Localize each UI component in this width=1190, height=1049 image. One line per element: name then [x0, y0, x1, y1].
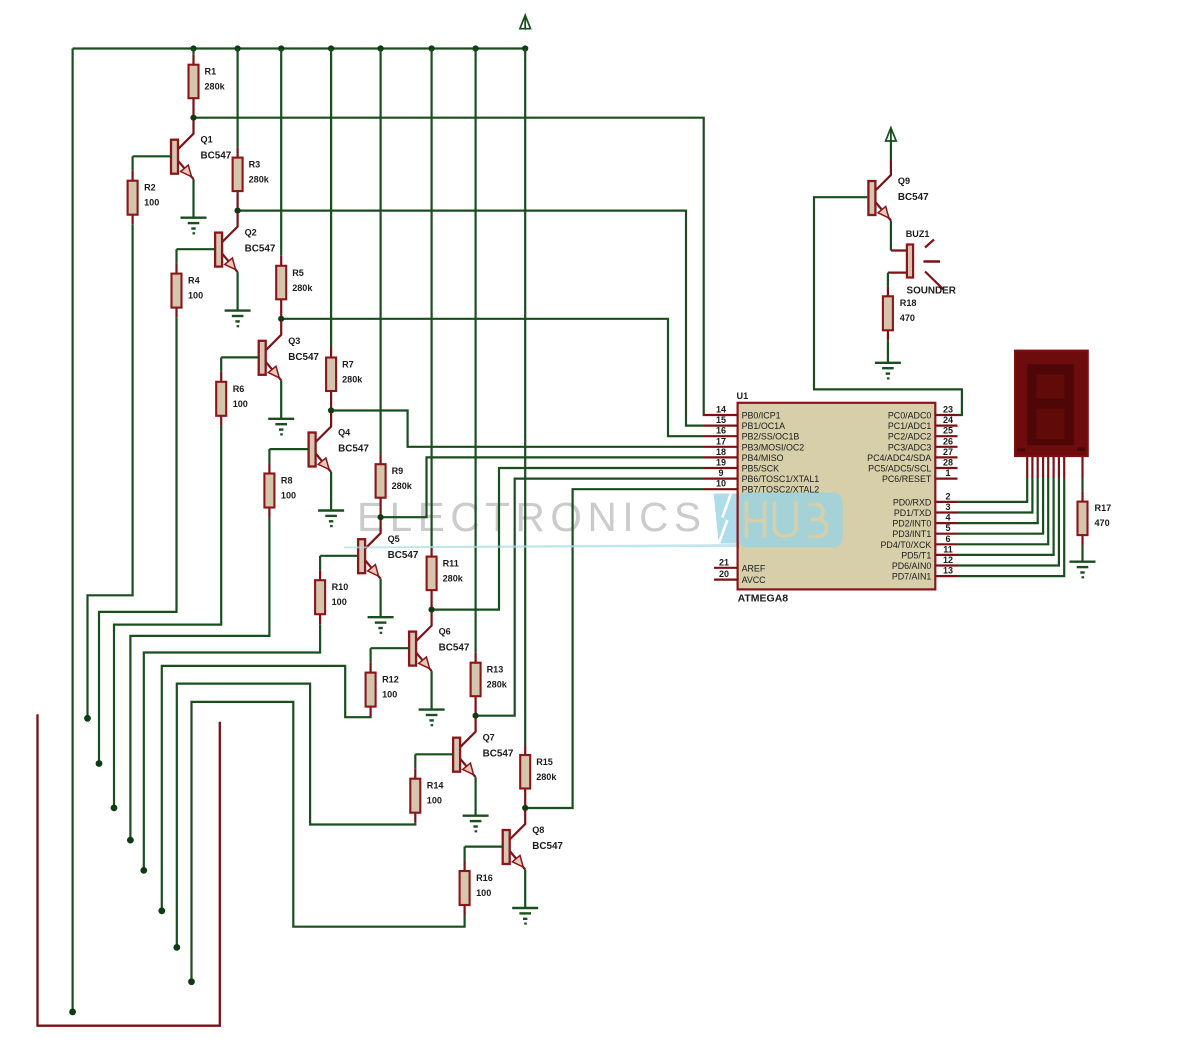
resistor R14 100	[410, 769, 444, 823]
resistor R3 280k	[233, 148, 270, 211]
wire bus drop stage 1	[192, 49, 194, 55]
wire output stage 3 to MCU	[281, 319, 704, 436]
ground under R17	[1070, 562, 1096, 578]
svg-text:R12: R12	[382, 675, 399, 685]
svg-text:R2: R2	[144, 183, 156, 193]
node probe 4 tip	[127, 837, 134, 844]
pin 14 PB0/ICP1	[704, 405, 781, 421]
svg-text:3: 3	[945, 502, 950, 512]
wire emitter Q7 to ground	[475, 777, 477, 816]
svg-text:100: 100	[281, 491, 296, 501]
resistor R4 100	[172, 264, 204, 318]
wire base Q6	[371, 648, 410, 662]
pin 24 PC1/ADC1	[888, 415, 958, 431]
svg-text:AREF: AREF	[742, 563, 766, 573]
svg-text:BUZ1: BUZ1	[906, 229, 930, 239]
resistor R1 280k	[189, 55, 226, 118]
svg-text:Q3: Q3	[288, 336, 300, 346]
transistor Q7 BC547	[453, 718, 514, 778]
svg-text:PC3/ADC3: PC3/ADC3	[888, 442, 931, 452]
svg-text:BC547: BC547	[483, 749, 514, 760]
svg-text:280k: 280k	[292, 283, 313, 293]
svg-text:Q8: Q8	[532, 825, 544, 835]
wire bus drop stage 4	[330, 49, 332, 348]
svg-text:BC547: BC547	[388, 550, 419, 561]
wire probe net stage 2	[99, 318, 177, 764]
svg-text:20: 20	[719, 569, 729, 579]
7-segment display	[1015, 351, 1088, 457]
wire bus drop stage 2	[237, 49, 239, 148]
node rail junction 1	[190, 45, 196, 51]
wire bus drop stage 5	[380, 49, 382, 455]
wire segment pin x1027 to MCU row 501.9	[958, 456, 1028, 502]
pin 25 PC2/ADC2	[888, 426, 958, 442]
resistor R15 280k	[520, 745, 557, 808]
svg-text:PB1/OC1A: PB1/OC1A	[742, 421, 785, 431]
node collector junction Q8	[522, 805, 528, 811]
pin 28 PC5/ADC5/SCL	[868, 458, 957, 474]
wire base Q5	[320, 556, 358, 570]
transistor Q4 BC547	[309, 413, 370, 473]
wire bus drop stage 7	[475, 49, 477, 653]
pin 16 PB2/SS/OC1B	[704, 426, 799, 442]
svg-text:6: 6	[945, 534, 950, 544]
svg-text:Q1: Q1	[201, 135, 213, 145]
pin 19 PB5/SCK	[704, 458, 779, 474]
wire segment pin x1032 to MCU row 512.5	[958, 456, 1033, 512]
svg-text:21: 21	[719, 557, 729, 567]
wire base Q9 to pin 23 PC0	[814, 197, 962, 415]
svg-text:PC2/ADC2: PC2/ADC2	[888, 432, 931, 442]
wire probe net stage 5	[144, 624, 320, 870]
buzzer BUZ1 SOUNDER	[888, 229, 956, 297]
svg-text:280k: 280k	[249, 175, 270, 185]
node rail junction 5	[378, 45, 384, 51]
svg-text:Q7: Q7	[483, 733, 495, 743]
svg-text:PD6/AIN0: PD6/AIN0	[892, 561, 932, 571]
svg-text:PD0/RXD: PD0/RXD	[893, 497, 931, 507]
ground under R18	[875, 363, 901, 379]
svg-text:BC547: BC547	[288, 352, 319, 363]
svg-text:R5: R5	[292, 268, 304, 278]
svg-text:19: 19	[716, 458, 726, 468]
svg-text:PC4/ADC4/SDA: PC4/ADC4/SDA	[867, 453, 931, 463]
svg-text:100: 100	[188, 291, 203, 301]
transistor Q1 BC547	[171, 120, 232, 180]
pin 18 PB4/MISO	[704, 447, 784, 463]
svg-text:1: 1	[945, 468, 950, 478]
svg-text:10: 10	[716, 479, 726, 489]
node rail junction 7	[473, 45, 479, 51]
svg-text:100: 100	[144, 198, 159, 208]
resistor R7 280k	[326, 348, 363, 411]
svg-text:280k: 280k	[536, 772, 557, 782]
wire R17 to ground	[1081, 545, 1083, 562]
resistor R11 280k	[427, 547, 464, 610]
pin 1 PC6/RESET	[882, 468, 958, 484]
svg-text:PB4/MISO: PB4/MISO	[742, 453, 784, 463]
svg-text:PD7/AIN1: PD7/AIN1	[892, 572, 932, 582]
pin 6 PD4/T0/XCK	[880, 534, 957, 550]
svg-text:R18: R18	[900, 298, 917, 308]
svg-text:26: 26	[943, 436, 953, 446]
svg-text:100: 100	[382, 690, 397, 700]
svg-text:R4: R4	[188, 276, 201, 286]
svg-text:PC0/ADC0: PC0/ADC0	[888, 411, 931, 421]
pin 9 PB6/TOSC1/XTAL1	[704, 468, 819, 484]
pin 11 PD5/T1	[901, 544, 957, 560]
svg-text:PC6/RESET: PC6/RESET	[882, 474, 932, 484]
watermark HUB logo	[344, 492, 843, 548]
transistor Q9 BC547	[868, 161, 929, 221]
svg-text:470: 470	[1095, 518, 1110, 528]
svg-text:BC547: BC547	[439, 643, 470, 654]
wire output stage 5 to MCU	[381, 457, 704, 517]
svg-text:2: 2	[945, 491, 950, 501]
node collector junction Q4	[328, 407, 334, 413]
svg-text:BC547: BC547	[245, 244, 276, 255]
svg-text:17: 17	[716, 436, 726, 446]
svg-text:ATMEGA8: ATMEGA8	[738, 593, 789, 605]
node collector junction Q5	[378, 514, 384, 520]
svg-text:14: 14	[716, 405, 726, 415]
node probe 2 tip	[96, 760, 103, 767]
node probe 6 tip	[158, 907, 165, 914]
wire base Q2	[177, 249, 216, 263]
svg-text:Q6: Q6	[439, 627, 451, 637]
wire output stage 1 to MCU	[194, 118, 705, 415]
wire segment pin x1064 to MCU row 576.1	[958, 456, 1065, 576]
resistor R18 470	[883, 286, 917, 340]
svg-text:R6: R6	[233, 384, 245, 394]
resistor R6 100	[216, 372, 248, 426]
resistor R13 280k	[471, 653, 508, 716]
wire +V top rail	[73, 47, 526, 49]
svg-text:100: 100	[427, 796, 442, 806]
svg-text:15: 15	[716, 415, 726, 425]
svg-text:PD4/T0/XCK: PD4/T0/XCK	[880, 540, 931, 550]
svg-text:23: 23	[943, 405, 953, 415]
pin 15 PB1/OC1A	[704, 415, 785, 431]
pin 2 PD0/RXD	[893, 491, 958, 507]
ground under Q6	[419, 710, 445, 726]
wire base Q8	[465, 847, 503, 861]
svg-text:R9: R9	[392, 466, 404, 476]
node collector junction Q2	[235, 208, 241, 214]
watermark text ELECTRONICS	[357, 494, 707, 540]
power symbol +V (buzzer)	[886, 128, 897, 142]
svg-text:Q2: Q2	[245, 228, 257, 238]
resistor R2 100	[128, 171, 160, 225]
wire bus drop stage 3	[280, 49, 282, 256]
power symbol +V (top)	[520, 15, 531, 30]
node collector junction Q7	[473, 713, 479, 719]
wire emitter Q9 to buzzer	[890, 221, 892, 251]
svg-text:25: 25	[943, 426, 953, 436]
wire emitter Q6 to ground	[431, 671, 433, 710]
node probe 7 tip	[173, 944, 180, 951]
wire segment pin x1043 to MCU row 533.7	[958, 456, 1044, 534]
water tank outline	[38, 714, 220, 1025]
wire buzzer collector	[890, 141, 892, 161]
resistor R8 100	[264, 464, 296, 518]
wire base Q4	[269, 449, 308, 463]
node collector junction Q3	[278, 316, 284, 322]
node probe 5 tip	[140, 867, 147, 874]
svg-text:R1: R1	[205, 67, 217, 77]
pin 3 PD1/TXD	[894, 502, 958, 518]
ground under Q8	[512, 908, 538, 924]
wire probe net stage 1	[88, 225, 133, 719]
node rail junction 2	[235, 45, 241, 51]
svg-text:R8: R8	[281, 476, 293, 486]
svg-text:28: 28	[943, 458, 953, 468]
svg-text:PC5/ADC5/SCL: PC5/ADC5/SCL	[868, 464, 931, 474]
transistor Q3 BC547	[259, 321, 320, 381]
node rail junction 3	[278, 45, 284, 51]
node rail junction 8	[522, 45, 528, 51]
wire probe net stage 3	[114, 426, 221, 808]
wire probe net stage 8	[192, 702, 465, 982]
wire probe net stage 7	[177, 684, 415, 948]
pin 23 PC0/ADC0	[888, 405, 958, 421]
wire emitter Q3 to ground	[280, 380, 282, 419]
node probe 1 tip	[84, 715, 91, 722]
node rail junction 6	[429, 45, 435, 51]
pin 21 AREF	[714, 557, 766, 573]
svg-text:280k: 280k	[342, 375, 363, 385]
svg-text:470: 470	[900, 313, 915, 323]
svg-text:BC547: BC547	[338, 444, 369, 455]
svg-text:16: 16	[716, 426, 726, 436]
pin 4 PD2/INT0	[892, 513, 957, 529]
node collector junction Q6	[429, 607, 435, 613]
wire base Q3	[221, 357, 259, 371]
wire emitter Q4 to ground	[330, 472, 332, 511]
ground under Q5	[368, 617, 394, 633]
svg-text:PD1/TXD: PD1/TXD	[894, 508, 931, 518]
transistor Q5 BC547	[358, 519, 419, 579]
wire output stage 8 to MCU	[525, 489, 704, 808]
svg-text:Q9: Q9	[898, 176, 910, 186]
resistor R12 100	[366, 663, 399, 717]
resistor R9 280k	[376, 454, 413, 517]
wire base Q7	[415, 754, 453, 768]
svg-text:U1: U1	[737, 391, 749, 401]
svg-text:R3: R3	[249, 160, 261, 170]
svg-text:PD3/INT1: PD3/INT1	[892, 529, 931, 539]
svg-text:100: 100	[332, 597, 347, 607]
svg-text:100: 100	[476, 888, 491, 898]
svg-text:18: 18	[716, 447, 726, 457]
svg-text:280k: 280k	[392, 481, 413, 491]
wire segment pin x1048 to MCU row 544.3	[958, 456, 1049, 544]
wire output stage 4 to MCU	[331, 411, 704, 447]
svg-text:PD5/T1: PD5/T1	[901, 550, 931, 560]
wire emitter Q8 to ground	[524, 870, 526, 909]
svg-text:SOUNDER: SOUNDER	[907, 286, 956, 297]
node probe 8 tip	[188, 978, 195, 985]
svg-text:BC547: BC547	[898, 192, 929, 203]
svg-text:4: 4	[945, 513, 950, 523]
svg-text:5: 5	[945, 523, 950, 533]
svg-text:BC547: BC547	[532, 841, 563, 852]
svg-text:27: 27	[943, 447, 953, 457]
resistor R17 470	[1078, 492, 1112, 545]
wire left supply drop to tank probe	[71, 49, 73, 1012]
wire base Q1	[133, 156, 171, 170]
pin 5 PD3/INT1	[892, 523, 957, 539]
wire segment pin x1053 to MCU row 554.9	[958, 456, 1054, 555]
svg-text:R10: R10	[332, 582, 349, 592]
svg-text:PC1/ADC1: PC1/ADC1	[888, 421, 931, 431]
node probe 3 tip	[111, 805, 118, 812]
pin 17 PB3/MOSI/OC2	[704, 436, 804, 452]
svg-text:11: 11	[943, 544, 953, 554]
svg-text:R11: R11	[443, 559, 459, 569]
pin 10 PB7/TOSC2/XTAL2	[704, 479, 819, 495]
svg-text:280k: 280k	[443, 574, 464, 584]
svg-text:BC547: BC547	[201, 151, 232, 162]
wire probe net stage 4	[130, 518, 269, 841]
svg-text:24: 24	[943, 415, 953, 425]
pin 27 PC4/ADC4/SDA	[867, 447, 957, 463]
wire bus drop stage 8	[524, 49, 526, 746]
IC U1 ATMEGA8	[737, 391, 936, 605]
svg-text:PB0/ICP1: PB0/ICP1	[742, 411, 781, 421]
pin 12 PD6/AIN0	[892, 555, 958, 571]
wire segment pin x1037 to MCU row 523.1	[958, 456, 1038, 523]
svg-text:AVCC: AVCC	[742, 575, 767, 585]
svg-text:PB3/MOSI/OC2: PB3/MOSI/OC2	[742, 442, 805, 452]
svg-text:PB2/SS/OC1B: PB2/SS/OC1B	[742, 432, 800, 442]
svg-text:R16: R16	[476, 873, 493, 883]
wire emitter Q5 to ground	[380, 579, 382, 618]
wire probe net stage 6	[162, 666, 371, 911]
wire bus drop stage 6	[431, 49, 433, 547]
pin 13 PD7/AIN1	[892, 566, 958, 582]
svg-text:280k: 280k	[487, 680, 508, 690]
svg-text:R14: R14	[427, 781, 445, 791]
svg-text:R17: R17	[1095, 503, 1112, 513]
svg-text:9: 9	[718, 468, 723, 478]
node supply probe dot	[69, 1009, 76, 1016]
transistor Q6 BC547	[409, 612, 470, 672]
ground under Q4	[318, 511, 344, 527]
pin 26 PC3/ADC3	[888, 436, 958, 452]
svg-text:R13: R13	[487, 665, 504, 675]
ground under Q2	[225, 311, 251, 327]
ground under Q1	[181, 218, 207, 234]
wire display common to R17	[1081, 456, 1083, 492]
svg-text:R15: R15	[536, 757, 553, 767]
svg-text:100: 100	[233, 399, 248, 409]
wire emitter Q1 to ground	[192, 179, 194, 218]
ground under Q7	[463, 816, 489, 832]
wire output stage 7 to MCU	[476, 479, 704, 716]
svg-text:PB6/TOSC1/XTAL1: PB6/TOSC1/XTAL1	[742, 474, 820, 484]
wire segment pin x1058 to MCU row 565.5	[958, 456, 1059, 565]
transistor Q8 BC547	[503, 810, 564, 870]
resistor R5 280k	[276, 256, 313, 319]
svg-text:13: 13	[943, 566, 953, 576]
svg-text:R7: R7	[342, 360, 354, 370]
svg-text:280k: 280k	[205, 82, 226, 92]
pin 20 AVCC	[714, 569, 766, 585]
wire buzzer to R18	[887, 273, 889, 287]
svg-text:12: 12	[943, 555, 953, 565]
ground under Q3	[268, 419, 294, 435]
svg-text:PD2/INT0: PD2/INT0	[892, 519, 931, 529]
resistor R10 100	[315, 570, 348, 624]
svg-text:PB5/SCK: PB5/SCK	[742, 464, 780, 474]
svg-text:Q5: Q5	[388, 534, 400, 544]
svg-text:Q4: Q4	[338, 428, 351, 438]
resistor R16 100	[460, 861, 493, 915]
wire output stage 2 to MCU	[238, 211, 704, 426]
wire output stage 6 to MCU	[432, 468, 704, 610]
wire emitter Q2 to ground	[237, 272, 239, 311]
wire R18 to ground	[887, 340, 889, 363]
node rail junction 4	[328, 45, 334, 51]
node collector junction Q1	[190, 115, 196, 121]
transistor Q2 BC547	[215, 213, 276, 273]
